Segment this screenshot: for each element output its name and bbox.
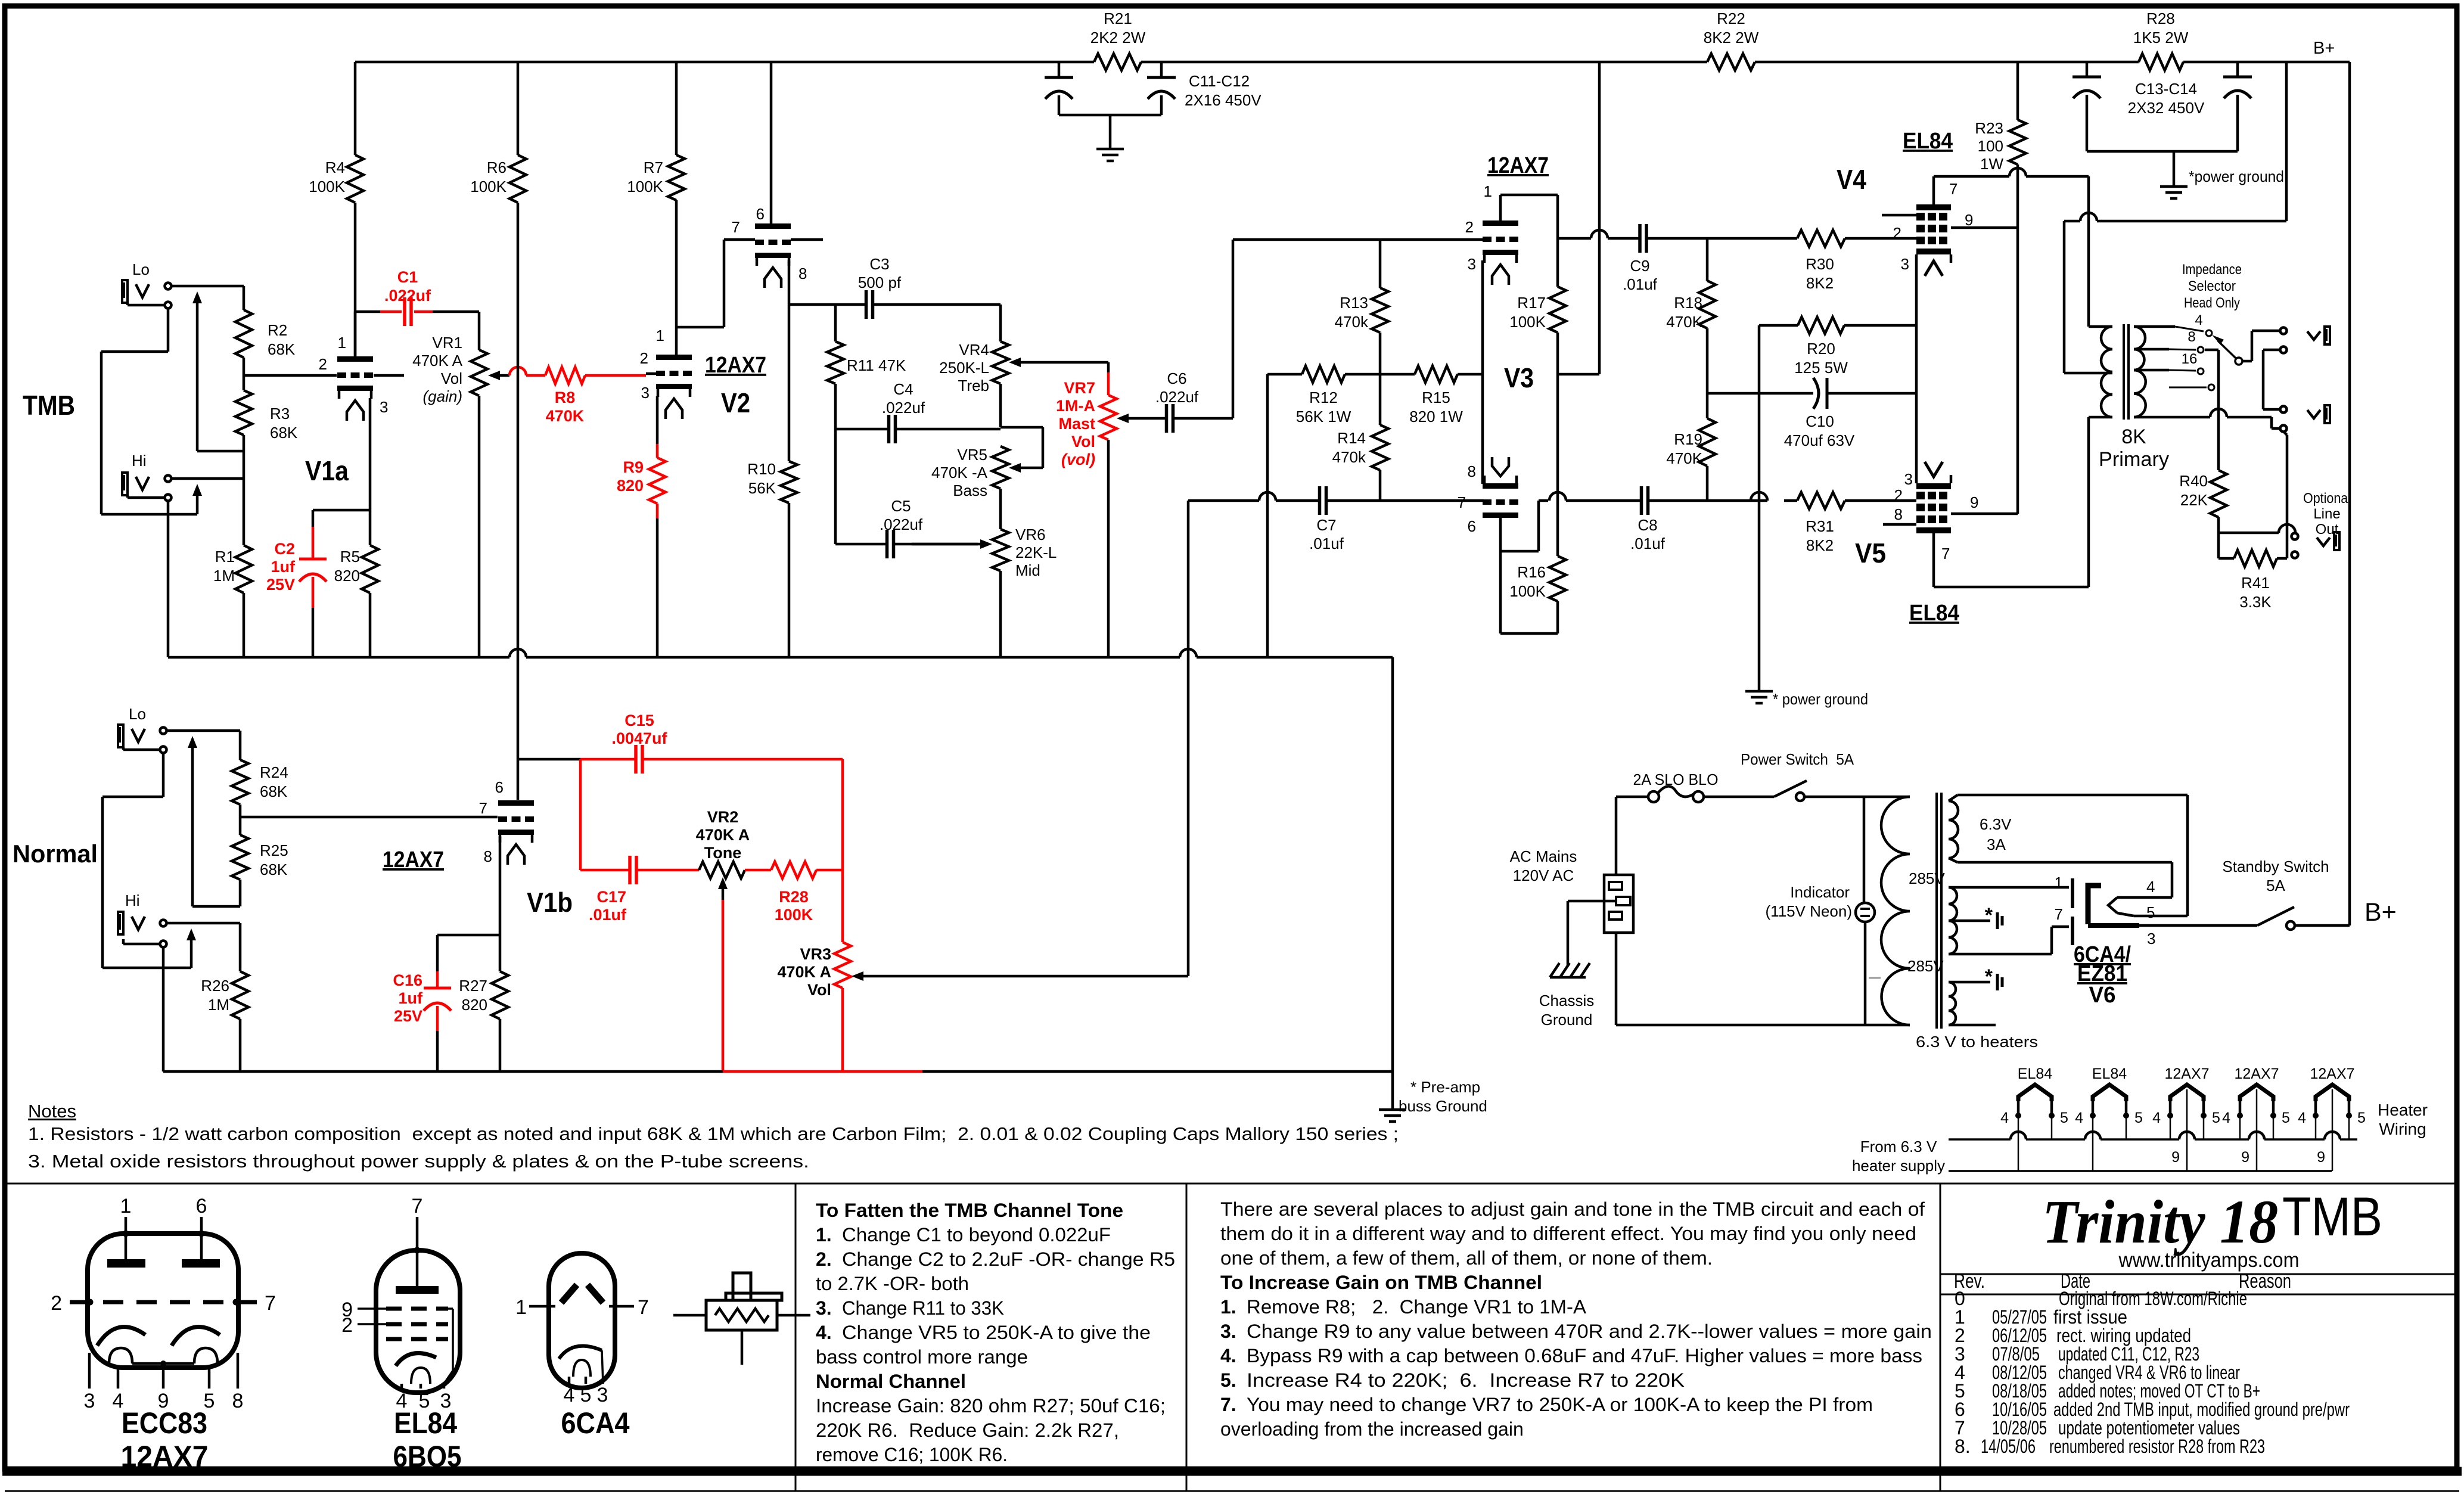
wire V1a cathode to R5 — [369, 398, 372, 510]
resistor R12 (56K 1W) — [1267, 373, 1302, 376]
svg-text:Head Only: Head Only — [2184, 295, 2240, 311]
svg-text:R8: R8 — [555, 389, 576, 406]
capacitor C16 (red electrolytic) — [436, 935, 439, 971]
svg-text:EL84: EL84 — [2018, 1066, 2052, 1082]
svg-text:1uf: 1uf — [399, 989, 424, 1007]
wire V3a plate to R17 top — [1499, 195, 1502, 220]
svg-text:470K A: 470K A — [777, 963, 831, 981]
wiper VR4 from VR7 — [1009, 358, 1021, 367]
transformer PT core — [1935, 793, 1938, 1029]
wire Normal Lo sleeve loop — [162, 753, 165, 797]
wire neon drop — [1863, 797, 1866, 903]
wire pin5 to top bus 3670 — [2203, 1116, 2205, 1139]
wire Lo jack frame to sleeve — [126, 303, 129, 305]
svg-text:4: 4 — [564, 1384, 575, 1406]
wire V3 grid line — [1233, 238, 1484, 241]
svg-text:R14: R14 — [1337, 429, 1366, 447]
resistor R24 — [239, 741, 242, 760]
svg-text:3: 3 — [641, 384, 650, 402]
svg-text:*power ground: *power ground — [2189, 167, 2284, 185]
wire mains top left — [1616, 796, 1648, 799]
svg-text:7.: 7. — [1220, 1394, 1236, 1415]
svg-text:5: 5 — [2357, 1110, 2366, 1126]
svg-text:EL84: EL84 — [1903, 129, 1953, 154]
wire screen column down to V5 — [2016, 228, 2019, 514]
svg-text:8: 8 — [1468, 462, 1476, 480]
svg-text:2: 2 — [1465, 218, 1474, 236]
svg-text:www.trinityamps.com: www.trinityamps.com — [2118, 1248, 2300, 1272]
svg-text:C2: C2 — [274, 540, 295, 558]
wire VR3 wiper feed column — [1187, 501, 1190, 976]
svg-text:C11-C12: C11-C12 — [1189, 72, 1250, 90]
svg-text:56K 1W: 56K 1W — [1296, 408, 1351, 425]
svg-text:2: 2 — [319, 355, 327, 373]
svg-text:VR2: VR2 — [707, 808, 739, 826]
svg-text:100K: 100K — [1509, 582, 1546, 600]
svg-text:4: 4 — [2146, 878, 2155, 896]
svg-text:TMB: TMB — [23, 390, 75, 421]
svg-text:7: 7 — [732, 218, 740, 236]
svg-text:470K A: 470K A — [696, 826, 750, 844]
wire V4 plate to OT — [1932, 176, 1935, 204]
svg-text:68K: 68K — [268, 340, 296, 358]
wire cathode bus V4-V5 — [1915, 254, 1918, 483]
svg-text:C13-C14: C13-C14 — [2135, 80, 2197, 98]
svg-text:Change C1 to beyond 0.022uF: Change C1 to beyond 0.022uF — [842, 1224, 1111, 1245]
pinout ECC83 outline — [88, 1234, 238, 1368]
svg-text:C6: C6 — [1167, 369, 1186, 387]
resistor R21 — [1094, 54, 1141, 70]
svg-text:9: 9 — [1970, 493, 1978, 511]
capacitor C1 (red) — [355, 310, 380, 313]
resistor R31 — [1796, 499, 1799, 502]
svg-text:6: 6 — [756, 205, 765, 223]
wire speaker1 sleeve to speaker2 tip — [2263, 349, 2280, 352]
pinout EL84 grids dashed — [386, 1307, 448, 1311]
resistor R19 — [1706, 393, 1709, 418]
svg-text:Power Switch 5A: Power Switch 5A — [1741, 750, 1854, 768]
potentiometer VR4 Treble — [999, 305, 1002, 341]
svg-text:5A: 5A — [2266, 877, 2285, 894]
svg-text:Mid: Mid — [1015, 561, 1040, 579]
wire Normal ground bus red segment — [723, 1070, 922, 1073]
resistor R1 — [243, 451, 246, 545]
svg-text:8: 8 — [798, 265, 807, 282]
wire pin5 to top bus 3787 — [2273, 1116, 2275, 1139]
svg-text:1M-A: 1M-A — [1056, 397, 1095, 415]
wire V1a grid stub right — [374, 374, 404, 377]
arrow Normal Hi shorting contact — [190, 938, 193, 968]
svg-text:EL84: EL84 — [1909, 601, 1959, 626]
svg-text:1: 1 — [515, 1296, 527, 1319]
svg-text:.022uf: .022uf — [882, 399, 925, 417]
pinout EL84 screen lead — [448, 1307, 453, 1310]
svg-text:470K: 470K — [1666, 313, 1702, 331]
svg-text:68K: 68K — [270, 424, 298, 442]
svg-text:V1b: V1b — [527, 887, 573, 918]
svg-text:12AX7: 12AX7 — [2234, 1066, 2279, 1082]
svg-text:Normal: Normal — [13, 840, 98, 868]
resistor R28 (1K5 2W) — [2139, 54, 2183, 70]
svg-text:470K -A: 470K -A — [931, 464, 988, 482]
wire pin5 to top bus 3415 — [2051, 1116, 2053, 1139]
svg-text:2K2 2W: 2K2 2W — [1090, 29, 1146, 46]
pinout ECC83 bottom pins — [88, 1353, 91, 1389]
svg-text:5: 5 — [580, 1384, 592, 1406]
resistor R18 — [1706, 238, 1709, 281]
svg-text:2: 2 — [1893, 224, 1901, 242]
svg-text:C5: C5 — [891, 497, 911, 515]
svg-text:to 2.7K -OR- both: to 2.7K -OR- both — [816, 1273, 969, 1294]
capacitor C17 (red) — [580, 869, 630, 872]
svg-text:3.: 3. — [816, 1297, 832, 1319]
svg-text:Mast: Mast — [1058, 415, 1095, 433]
wire Lo tip to R2 — [172, 285, 244, 288]
svg-text:25V: 25V — [266, 576, 295, 594]
svg-text:R5: R5 — [340, 548, 360, 566]
svg-text:Treb: Treb — [958, 377, 990, 395]
svg-text:R26: R26 — [201, 977, 229, 995]
wire 285V bottom lead — [1949, 953, 2052, 956]
svg-text:R15: R15 — [1422, 389, 1450, 406]
pinout ECC83 grid dashed — [70, 1300, 257, 1304]
pinout EL84 cathode — [396, 1353, 436, 1366]
svg-text:100: 100 — [1978, 137, 2003, 155]
chassis ground symbol — [1550, 976, 1586, 979]
resistor R28 (red 100K) — [745, 869, 771, 872]
svg-text:285V: 285V — [1909, 869, 1945, 887]
wire C7 line — [1188, 499, 1259, 502]
transformer PT HT winding — [1949, 887, 1957, 954]
tube V3a triode — [1483, 220, 1518, 226]
ground power bias — [1745, 690, 1773, 693]
svg-text:R30: R30 — [1806, 255, 1834, 273]
jack speaker 1 — [2280, 328, 2287, 334]
svg-text:V2: V2 — [721, 387, 750, 418]
svg-text:Line: Line — [2313, 506, 2340, 522]
svg-text:Trinity 18: Trinity 18 — [2042, 1188, 2278, 1256]
wire cathode node to tone stack — [789, 303, 835, 306]
wire Hi jack frame — [126, 495, 129, 498]
svg-text:R31: R31 — [1806, 517, 1834, 535]
svg-text:R22: R22 — [1717, 10, 1745, 27]
pinout ECC83 plates — [107, 1259, 145, 1268]
svg-text:Out: Out — [2316, 521, 2339, 538]
svg-text:VR1: VR1 — [432, 334, 462, 352]
resistor R15 (820 1W) — [1380, 373, 1415, 376]
svg-text:Vol: Vol — [807, 981, 831, 999]
svg-text:4: 4 — [2000, 1110, 2009, 1126]
pinout ECC83 cathode arcs — [97, 1327, 145, 1346]
wire V5 screen to column — [1951, 513, 2018, 515]
svg-text:Chassis: Chassis — [1539, 992, 1594, 1010]
wire bias node line with C10 — [1707, 392, 1759, 395]
svg-text:16: 16 — [2182, 351, 2198, 367]
pinout 6CA4 cathode — [559, 1346, 602, 1359]
bottom panel divider 1 — [795, 1184, 797, 1491]
svg-text:R28: R28 — [2146, 10, 2175, 27]
svg-text:9: 9 — [1965, 211, 1973, 229]
fuse F1 — [1648, 791, 1659, 802]
svg-text:R25: R25 — [260, 841, 288, 859]
tube V1a triode — [337, 356, 373, 362]
svg-text:R40: R40 — [2179, 472, 2208, 490]
svg-text:22K-L: 22K-L — [1015, 543, 1057, 561]
svg-text:7: 7 — [1949, 180, 1957, 198]
svg-text:R11 47K: R11 47K — [847, 356, 906, 374]
svg-text:8: 8 — [1894, 505, 1903, 523]
svg-text:Impedance: Impedance — [2182, 262, 2242, 278]
svg-text:6: 6 — [1468, 517, 1476, 535]
svg-text:125 5W: 125 5W — [1794, 359, 1848, 377]
wire heater bottom bus — [1949, 1170, 2332, 1172]
svg-text:2A SLO BLO: 2A SLO BLO — [1633, 771, 1719, 788]
svg-text:820 1W: 820 1W — [1409, 408, 1463, 425]
svg-text:R27: R27 — [459, 977, 487, 995]
svg-text:68K: 68K — [260, 861, 288, 878]
svg-text:1M: 1M — [208, 996, 229, 1014]
svg-text:2: 2 — [640, 349, 648, 367]
tap 4 lead — [2134, 325, 2175, 328]
capacitor C8 — [1639, 499, 1640, 502]
wire R40 to line out tip — [2218, 532, 2279, 535]
svg-text:Change C2 to 2.2uF -OR- change: Change C2 to 2.2uF -OR- change R5 — [842, 1248, 1175, 1270]
wire pin9 to bottom bus 3787 — [2256, 1089, 2258, 1171]
wire selector common to jacks — [2242, 360, 2252, 363]
svg-text:Standby Switch: Standby Switch — [2222, 858, 2329, 875]
svg-text:100K: 100K — [775, 906, 813, 924]
svg-text:AC Mains: AC Mains — [1510, 847, 1577, 865]
svg-text:bass control more range: bass control more range — [816, 1346, 1028, 1368]
pinout EL84 outline — [376, 1250, 460, 1393]
wire OT secondary ground — [2134, 416, 2210, 419]
svg-text:C8: C8 — [1638, 516, 1657, 534]
wire red left branch — [579, 759, 582, 870]
wire pin9 to bottom bus 3914 — [2332, 1089, 2334, 1171]
svg-text:6BQ5: 6BQ5 — [393, 1440, 462, 1473]
svg-text:V1a: V1a — [305, 455, 349, 486]
svg-text:C9: C9 — [1630, 257, 1649, 275]
transformer OT secondary — [2134, 327, 2145, 349]
svg-text:R10: R10 — [747, 460, 776, 478]
tube V6 heater — [2108, 897, 2117, 913]
svg-text:EL84: EL84 — [2092, 1066, 2127, 1082]
svg-text:3: 3 — [380, 398, 388, 416]
selector lever — [2212, 335, 2224, 344]
svg-text:* Pre-amp: * Pre-amp — [1410, 1078, 1480, 1096]
wire V2b grid stub right — [791, 238, 823, 241]
wire rail R22 to R28 — [1755, 61, 2139, 64]
wire V2b grid to V2a plate — [724, 238, 755, 241]
pinout EL84 plate — [396, 1286, 439, 1294]
wire B+ drop to V3 — [1598, 62, 1601, 374]
wire R25 bottom junction to Lo arrow — [192, 905, 240, 908]
wire pin9 to bottom bus 3670 — [2186, 1089, 2188, 1171]
wire V1b grid line — [240, 816, 498, 819]
svg-text:8: 8 — [484, 847, 492, 865]
svg-text:.01uf: .01uf — [1630, 535, 1666, 552]
svg-text:470K A: 470K A — [412, 352, 463, 369]
svg-text:5: 5 — [2060, 1110, 2068, 1126]
wire pin4 to top bus 3914 — [2315, 1116, 2317, 1139]
wire plug middle to chassis ground — [1568, 900, 1616, 903]
svg-text:them do it in a different way: them do it in a different way and to dif… — [1220, 1223, 1916, 1244]
wire heater top bus — [1949, 1138, 2011, 1141]
bottom thin line — [5, 1490, 2459, 1492]
svg-text:B+: B+ — [2313, 39, 2335, 58]
wire rail R28 to B+ corner — [2183, 61, 2350, 64]
svg-text:Lo: Lo — [129, 705, 146, 723]
svg-text:4: 4 — [2075, 1110, 2083, 1126]
svg-text:B+: B+ — [2364, 898, 2397, 927]
svg-text:6.3 V to heaters: 6.3 V to heaters — [1916, 1033, 2038, 1051]
svg-text:R9: R9 — [623, 458, 644, 476]
svg-text:9: 9 — [2241, 1149, 2249, 1166]
wire 6.3V bottom lead — [1949, 858, 1957, 862]
wire cathode node to C2 — [313, 509, 370, 512]
svg-text:Optional: Optional — [2303, 490, 2351, 507]
svg-text:5: 5 — [2146, 903, 2155, 921]
svg-text:Vol: Vol — [1071, 433, 1095, 451]
resistor R41 — [2217, 533, 2220, 558]
svg-text:9: 9 — [2171, 1149, 2180, 1166]
junction marker — [1869, 977, 1881, 979]
wire fuse to switch — [1704, 796, 1774, 799]
jack speaker 2 — [2280, 406, 2287, 413]
svg-text:Tone: Tone — [704, 844, 742, 862]
svg-text:R17: R17 — [1517, 294, 1546, 312]
capacitor C7 — [1316, 499, 1320, 502]
svg-text:250K-L: 250K-L — [939, 359, 989, 377]
svg-text:5.: 5. — [1220, 1369, 1236, 1391]
svg-text:4.: 4. — [1220, 1345, 1236, 1366]
svg-text:9: 9 — [2317, 1149, 2325, 1166]
pinout ECC83 cathode leads — [109, 1348, 132, 1363]
wire R12 to ground bus — [1266, 374, 1269, 657]
svg-text:R12: R12 — [1309, 389, 1338, 406]
svg-text:Bypass R9 with a cap between 0: Bypass R9 with a cap between 0.68uF and … — [1247, 1345, 1922, 1366]
wire cathode to standby switch — [2139, 924, 2257, 927]
svg-text:120V AC: 120V AC — [1513, 866, 1574, 884]
svg-text:C17: C17 — [596, 888, 626, 906]
svg-text:R28: R28 — [779, 888, 809, 906]
svg-text:4: 4 — [2152, 1110, 2161, 1126]
svg-text:TMB: TMB — [2282, 1186, 2382, 1247]
wire switch to transformer — [1804, 796, 1910, 799]
indicator neon lamp — [1856, 903, 1875, 922]
svg-text:6CA4: 6CA4 — [561, 1406, 630, 1440]
bottom panel divider 3 (title block) — [1940, 1184, 1941, 1491]
resistor R23 (100 1W) — [2016, 62, 2019, 120]
svg-text:V6: V6 — [2089, 983, 2116, 1008]
resistor R9 (red) — [656, 444, 659, 458]
svg-text:6: 6 — [196, 1195, 207, 1217]
capacitor C11 — [1058, 62, 1061, 77]
arrow Normal Lo shorting contact — [191, 746, 194, 906]
svg-text:C1: C1 — [397, 268, 418, 286]
wire preamp ground drop — [1391, 657, 1394, 1110]
tube V6 cathode — [2088, 886, 2101, 924]
svg-text:R4: R4 — [325, 159, 345, 176]
svg-text:8K: 8K — [2121, 425, 2146, 448]
panel separator line — [6, 1183, 2457, 1185]
trimmer symbol — [673, 1314, 706, 1317]
svg-text:1: 1 — [1484, 182, 1492, 200]
svg-text:R16: R16 — [1517, 563, 1546, 581]
resistor R40 — [2210, 470, 2227, 517]
transformer OT primary — [2101, 327, 2112, 417]
svg-text:1K5 2W: 1K5 2W — [2133, 29, 2189, 46]
svg-text:Selector: Selector — [2188, 278, 2236, 294]
svg-text:*: * — [1985, 965, 1993, 988]
svg-text:7: 7 — [265, 1292, 276, 1315]
resistor R7 — [675, 62, 678, 155]
svg-text:C16: C16 — [393, 971, 422, 989]
svg-text:4: 4 — [2195, 312, 2202, 328]
potentiometer VR7 Master (red) — [1107, 362, 1110, 372]
svg-text:Hi: Hi — [132, 452, 147, 470]
transformer PT heater winding — [1949, 982, 1956, 1025]
svg-text:1uf: 1uf — [271, 558, 296, 576]
svg-text:C10: C10 — [1806, 412, 1834, 430]
svg-text:12AX7: 12AX7 — [705, 353, 766, 378]
svg-text:1. Resistors - 1/2 watt carbon: 1. Resistors - 1/2 watt carbon compositi… — [28, 1123, 1399, 1144]
svg-text:C4: C4 — [893, 380, 913, 398]
svg-text:Wiring: Wiring — [2379, 1120, 2426, 1138]
svg-text:1.: 1. — [816, 1224, 832, 1245]
svg-text:2: 2 — [341, 1314, 353, 1337]
plug AC — [1604, 875, 1633, 933]
resistor R26 — [239, 923, 242, 971]
svg-text:C3: C3 — [869, 255, 889, 273]
svg-text:.022uf: .022uf — [1155, 388, 1199, 406]
switch power — [1774, 781, 1807, 797]
svg-text:Normal Channel: Normal Channel — [816, 1371, 966, 1392]
svg-text:1M: 1M — [213, 567, 235, 585]
svg-text:100K: 100K — [1509, 313, 1546, 331]
svg-text:R3: R3 — [270, 405, 290, 423]
wire V3 cathode link — [1481, 260, 1484, 484]
wire Normal Lo frame — [122, 747, 125, 750]
wire pin4 to top bus 3787 — [2239, 1116, 2241, 1139]
tap 8 lead — [2134, 348, 2169, 351]
wire Normal Lo tip to R24 — [167, 729, 240, 732]
svg-text:8K2: 8K2 — [1806, 274, 1834, 292]
wire B+ right side down — [2348, 62, 2351, 925]
ground C11-C12 — [1096, 148, 1124, 151]
svg-text:V3: V3 — [1504, 362, 1534, 393]
capacitor C5 — [835, 543, 887, 546]
svg-text:.01uf: .01uf — [1623, 275, 1658, 293]
svg-text:R1: R1 — [215, 548, 235, 566]
svg-text:C7: C7 — [1316, 516, 1336, 534]
resistor R17 — [1556, 195, 1559, 287]
wire C8 line left — [1539, 499, 1548, 502]
jack line out — [2292, 533, 2298, 540]
title table header line — [1940, 1274, 2457, 1275]
capacitor C9 — [1558, 237, 1591, 240]
wire standby to B+ — [2295, 924, 2350, 927]
svg-text:7: 7 — [2055, 905, 2063, 923]
svg-text:R41: R41 — [2241, 574, 2270, 592]
wire heater top lead — [1949, 981, 1990, 984]
tube V5 EL84 inverted — [1916, 483, 1951, 489]
wire V1b cathode node — [499, 837, 502, 935]
svg-text:renumbered resistor R28 from R: renumbered resistor R28 from R23 — [2049, 1436, 2265, 1457]
svg-text:1.: 1. — [1220, 1296, 1236, 1318]
wire R6 to V1b plate — [517, 203, 520, 800]
svg-text:Increase Gain: 820 ohm R27; 50: Increase Gain: 820 ohm R27; 50uf C16; — [816, 1395, 1166, 1417]
